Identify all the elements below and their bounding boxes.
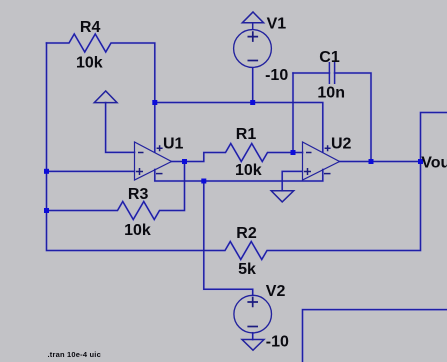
svg-text:.tran 10e-4 uic: .tran 10e-4 uic (48, 350, 101, 359)
svg-text:10k: 10k (124, 222, 151, 239)
svg-text:R2: R2 (236, 225, 257, 242)
svg-text:10n: 10n (317, 85, 345, 102)
svg-text:U1: U1 (163, 136, 184, 153)
svg-text:10k: 10k (235, 162, 262, 179)
svg-text:U2: U2 (331, 136, 352, 153)
svg-text:-10: -10 (265, 67, 288, 84)
svg-text:R1: R1 (236, 126, 257, 143)
svg-text:V1: V1 (267, 16, 287, 33)
svg-text:C1: C1 (319, 49, 340, 66)
svg-text:5k: 5k (238, 261, 256, 278)
svg-text:R4: R4 (80, 19, 101, 36)
svg-text:Vout: Vout (421, 154, 447, 171)
svg-text:-10: -10 (266, 334, 289, 351)
svg-text:R3: R3 (128, 186, 149, 203)
svg-text:10k: 10k (76, 55, 103, 72)
svg-text:V2: V2 (266, 283, 286, 300)
